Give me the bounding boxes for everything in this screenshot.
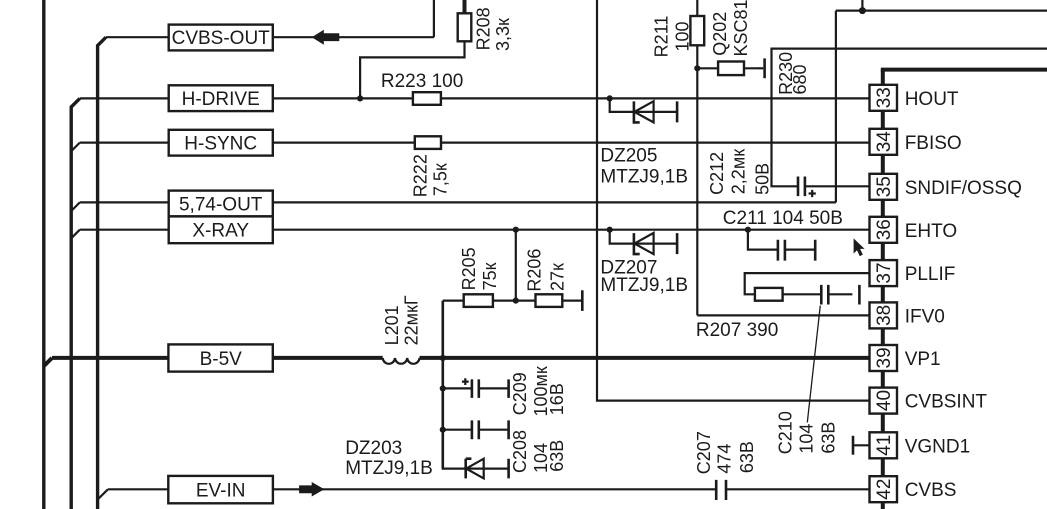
arrow on EV-IN wire (points right) [299,482,324,497]
svg-text:R205: R205 [459,247,479,290]
svg-text:B-5V: B-5V [200,349,243,370]
mouse cursor [854,238,865,256]
svg-text:C207: C207 [694,431,714,474]
thick wire from pin 33 top to right edge [881,68,1047,72]
svg-text:75к: 75к [480,262,500,290]
svg-text:EV-IN: EV-IN [196,481,246,502]
IC pin 36 EHTO [870,217,958,243]
IC pin column thick connector [881,70,885,509]
resistor R208 (vertical) with wires [463,0,467,13]
svg-text:VGND1: VGND1 [905,436,970,457]
wire B-5V net (thick) to pin 39 [44,358,870,366]
capacitor C210 with terminal bar [821,285,859,305]
node box X-RAY [169,216,273,243]
capacitor C207 [716,480,726,500]
svg-text:CVBS: CVBS [905,480,957,501]
svg-text:R206: R206 [525,249,545,292]
svg-text:36: 36 [874,219,895,240]
IC pin 35 SNDIF/OSSQ [870,174,1022,200]
junction H-DRIVE / DZ205 [607,95,613,101]
svg-text:63В: 63В [819,422,839,454]
IC pin 34 FBISO [870,129,962,155]
svg-text:C210: C210 [776,411,796,454]
svg-text:50В: 50В [752,163,772,195]
svg-text:22мкГ: 22мкГ [401,295,421,345]
svg-text:474: 474 [715,444,735,474]
svg-text:2,2мк: 2,2мк [729,149,749,194]
leader line from C210 to its label [807,306,820,423]
svg-text:R207 390: R207 390 [696,320,778,341]
node box EV-IN [168,476,273,503]
svg-text:HOUT: HOUT [905,89,959,110]
svg-text:H-SYNC: H-SYNC [184,134,257,155]
svg-text:KSC815: KSC815 [731,0,751,57]
svg-text:41: 41 [874,435,895,456]
junction C208 [440,427,446,433]
zener diode DZ207 [610,230,677,254]
svg-text:X-RAY: X-RAY [192,221,249,242]
svg-text:L201: L201 [382,305,402,345]
svg-text:3,3к: 3,3к [493,18,513,51]
resistor R205 [443,300,516,302]
wire from X-RAY down to R205/R206 [515,230,517,301]
node box B-5V [168,344,272,371]
capacitor C208 [443,420,509,439]
IC pin 42 CVBS [870,476,957,502]
node box H-DRIVE [169,85,273,111]
svg-text:7,5к: 7,5к [431,163,451,196]
zener diode DZ203 [443,430,509,479]
svg-text:16В: 16В [547,383,567,415]
junction on top wire with stub up [859,7,866,14]
capacitor C211 [748,230,815,261]
svg-text:FBISO: FBISO [905,133,962,154]
IC pin 40 CVBSINT [870,388,988,414]
junction EHTO / C211 [745,227,751,233]
svg-text:37: 37 [874,262,895,283]
wire CVBSINT vertical + horizontal to pin 40 [597,0,870,401]
arrow on CVBS-OUT wire (points left) [312,30,340,45]
wire H-DRIVE net [80,97,870,99]
IC pin 33 HOUT [870,85,959,111]
svg-text:63В: 63В [547,440,567,472]
base resistor of Q202 with terminal bar [697,67,757,69]
junction B-5V / branch [440,355,446,361]
svg-text:5,74-OUT: 5,74-OUT [179,194,263,215]
zener diode DZ205 [610,98,677,122]
svg-text:100: 100 [672,21,692,51]
svg-text:MTZJ9,1B: MTZJ9,1B [600,275,688,296]
svg-text:C212: C212 [707,152,727,195]
IC pin 37 PLLIF [870,260,956,286]
node box CVBS-OUT [169,25,273,51]
resistor R223 [413,92,441,105]
svg-text:IFV0: IFV0 [905,306,945,327]
junction R211 / base resistor [694,65,700,71]
svg-text:CVBS-OUT: CVBS-OUT [172,28,271,49]
wire H-SYNC / FBISO net [71,143,869,152]
svg-text:42: 42 [874,479,895,500]
wire CVBS-OUT net [106,0,434,37]
resistor R222 [415,136,441,149]
svg-text:R222: R222 [410,154,430,197]
junction X-RAY / DZ207 [607,227,613,233]
svg-text:DZ203: DZ203 [345,438,402,459]
IC pin 39 VP1 [870,345,941,371]
capacitor C212 (electrolytic) to pin 35 [798,177,805,197]
resistor R207 [755,288,783,301]
svg-text:104: 104 [797,424,817,454]
svg-text:35: 35 [874,176,895,197]
svg-text:R223 100: R223 100 [381,71,463,92]
wire: left vertical bus rail 3 [98,37,106,509]
junction X-RAY / R205 branch [513,227,519,233]
terminal bar at pin 41 VGND1 [853,444,870,446]
wire R205 branch down to B-5V and capacitors [441,301,444,469]
svg-text:27к: 27к [548,263,568,291]
svg-text:CVBSINT: CVBSINT [905,392,988,413]
svg-text:40: 40 [874,390,895,411]
IC pin 38 IFV0 [870,302,945,328]
wire: left vertical bus rail 1 [42,0,45,509]
wire: left vertical bus rail 2 [71,98,80,509]
svg-text:PLLIF: PLLIF [905,264,956,285]
capacitor C209 (electrolytic, + mark) [443,378,509,398]
svg-text:H-DRIVE: H-DRIVE [182,89,260,110]
IC pin 41 VGND1 [870,432,971,458]
junction C209 [440,385,446,391]
wire X-RAY / EHTO net [71,230,869,239]
svg-text:34: 34 [874,131,895,153]
svg-text:38: 38 [874,305,895,326]
resistor R206 with terminal bar [516,300,583,302]
svg-text:MTZJ9,1B: MTZJ9,1B [345,458,433,479]
svg-text:Q202: Q202 [710,12,730,56]
svg-text:VP1: VP1 [905,349,941,370]
inductor L201 [383,358,420,364]
wire 5,74-OUT net [71,11,1047,211]
svg-text:C208: C208 [510,430,530,473]
svg-text:R208: R208 [474,7,494,50]
svg-text:680: 680 [790,64,810,94]
svg-text:33: 33 [874,87,895,108]
svg-text:DZ205: DZ205 [600,145,657,166]
svg-text:39: 39 [874,347,895,368]
svg-text:R211: R211 [652,16,672,58]
wire R230 net [772,49,1047,187]
junction H-DRIVE / R208 [357,95,363,101]
wire PLLIF loop from pin 37 [745,273,870,294]
junction R205 / R206 [513,298,519,304]
svg-text:MTZJ9,1B: MTZJ9,1B [600,166,688,187]
wire IFV0 from R211 line to pin 38 [697,314,869,316]
svg-text:C209: C209 [510,372,530,415]
node box 5,74-OUT [169,191,273,217]
svg-text:EHTO: EHTO [905,221,957,242]
resistor R211 (vertical) on line to IFV0 [696,0,698,315]
svg-text:63В: 63В [737,441,757,473]
svg-text:C211 104 50В: C211 104 50В [723,208,843,229]
wire EV-IN / CVBS net [98,489,869,499]
svg-text:SNDIF/OSSQ: SNDIF/OSSQ [905,178,1022,199]
node box H-SYNC [169,130,273,156]
